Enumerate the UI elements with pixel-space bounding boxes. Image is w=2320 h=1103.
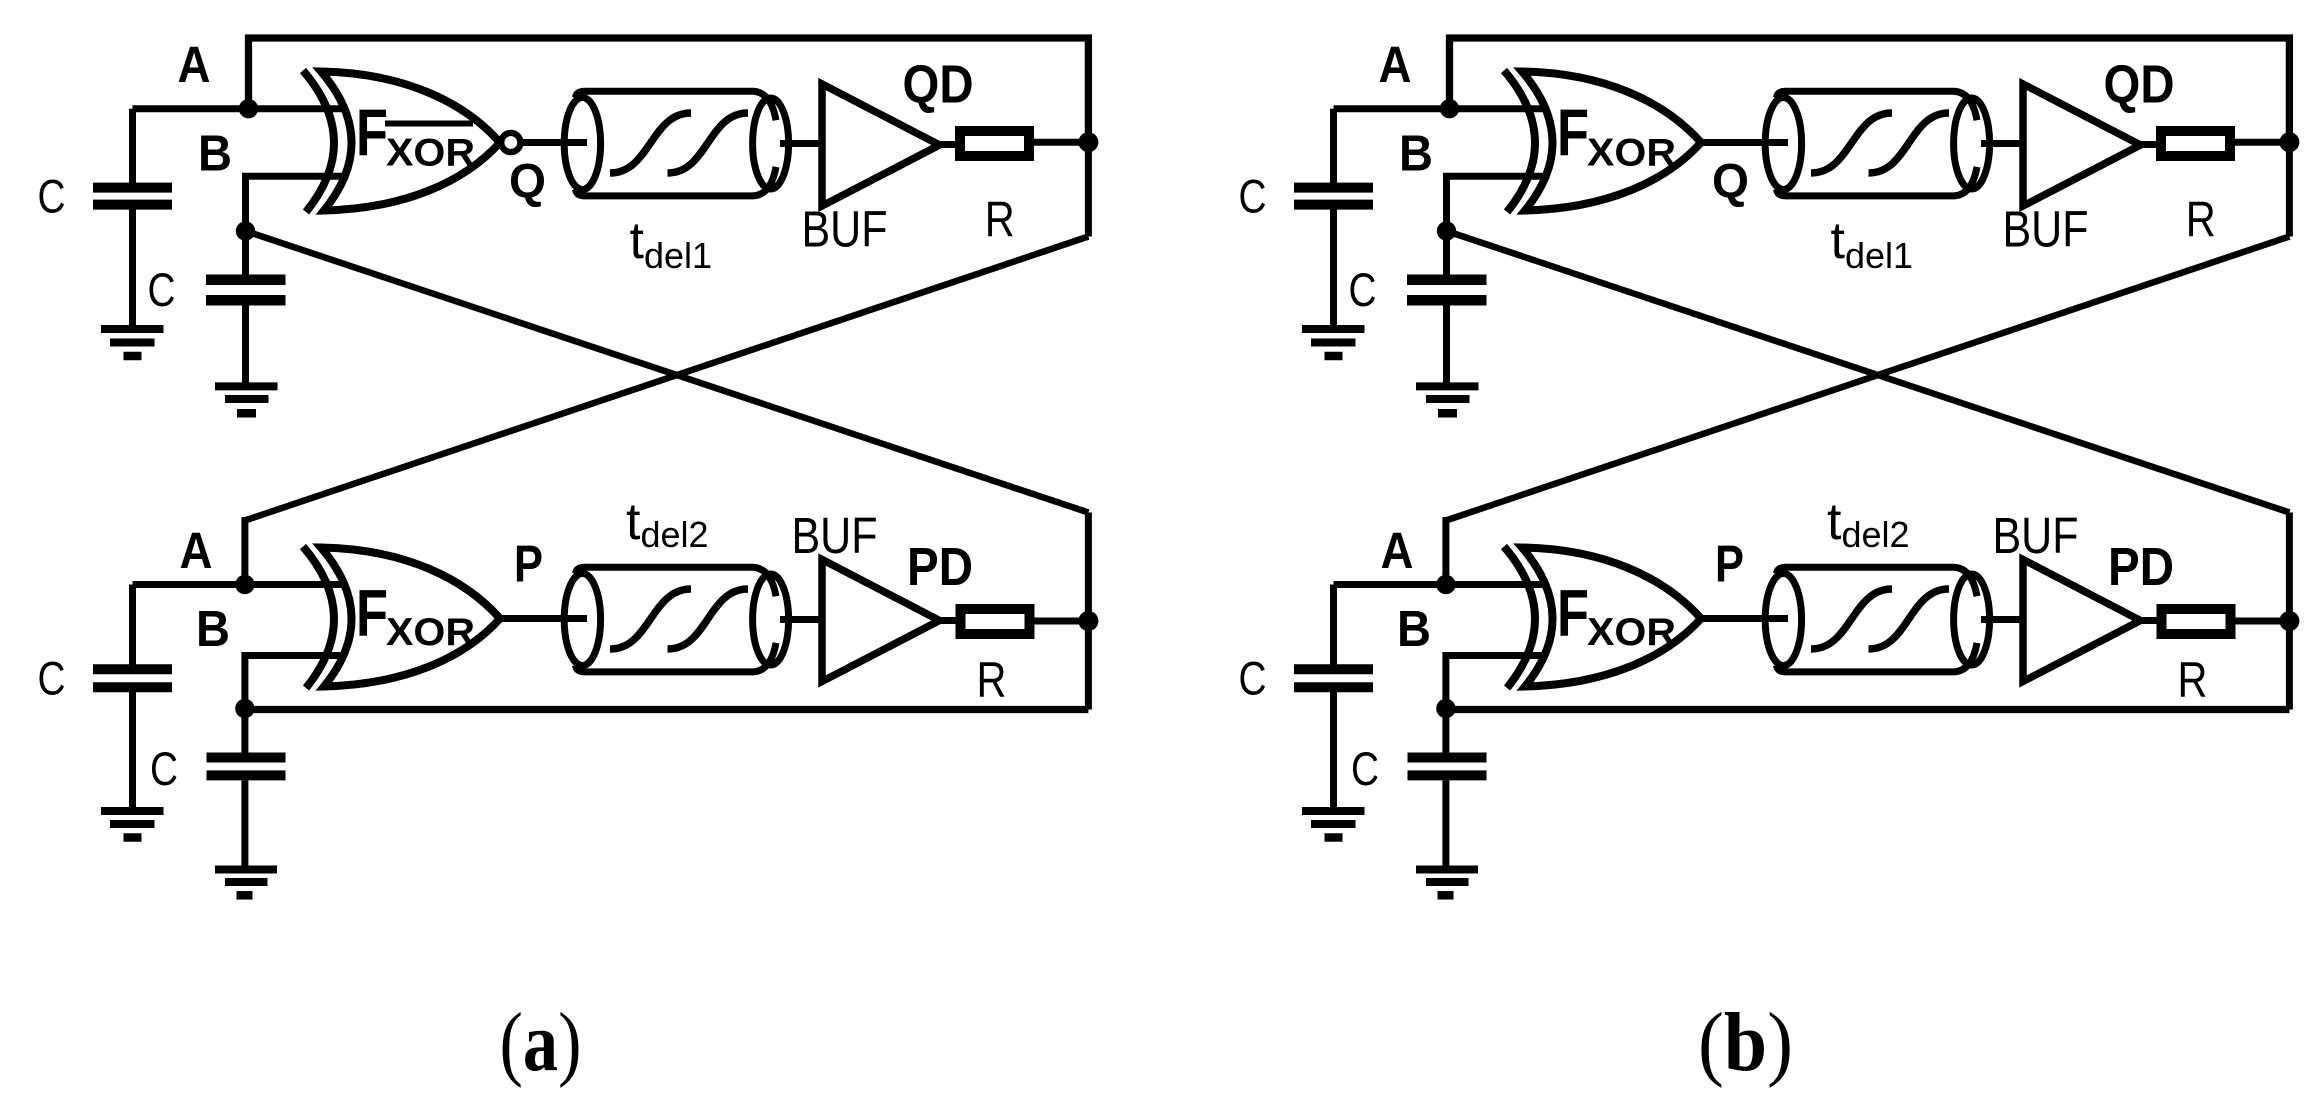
delay line tdel2 sigmoid curve 1 (b) <box>1811 589 1892 649</box>
ground below C2 (a) <box>215 386 278 413</box>
wire input A bottom (a) <box>133 581 366 588</box>
ground below C4 (a) <box>215 870 277 896</box>
wire resistor to node QD (b) <box>2235 139 2289 146</box>
svg-text:XOR: XOR <box>386 611 475 654</box>
svg-text:C: C <box>1349 263 1377 316</box>
buffer BUF triangle (bottom, a) <box>822 560 940 682</box>
delay line tdel1 body (a) <box>576 91 777 196</box>
svg-text:BUF: BUF <box>1993 507 2079 564</box>
xor gate input side double-arc U2-a (bottom) <box>303 547 334 689</box>
capacitor C3 (a) <box>93 669 172 687</box>
wire tdel2 output stub (a) <box>780 616 823 623</box>
node QD (b) <box>2279 132 2299 152</box>
xor gate input side double-arc U1-b (top) <box>1504 71 1535 213</box>
delay line tdel2 left end ellipse (b) <box>1765 574 1801 666</box>
svg-text:QD: QD <box>2104 55 2175 115</box>
svg-text:B: B <box>198 125 232 182</box>
wire P output (a) <box>500 615 587 622</box>
wire C3 to ground (a) <box>129 692 136 808</box>
node PD (a) <box>1078 611 1098 631</box>
node B bottom (b) <box>1436 699 1455 718</box>
wire tdel1 output stub (b) <box>1981 140 2024 147</box>
wire input A top (a) <box>133 105 366 112</box>
svg-text:B: B <box>1399 125 1433 182</box>
svg-text:F: F <box>356 95 388 169</box>
node A top (b) <box>1440 99 1459 118</box>
ground below C1 (a) <box>101 329 164 356</box>
wire BUF to resistor (top, b) <box>2141 141 2163 148</box>
xor gate body U1-a (top) <box>321 72 500 211</box>
capacitor C3 (b) <box>1294 669 1373 687</box>
svg-text:A: A <box>1381 522 1414 579</box>
delay line tdel2 right end ellipse (a) <box>753 574 789 665</box>
buffer BUF triangle (top, a) <box>822 84 940 206</box>
svg-text:B: B <box>1397 600 1431 657</box>
wire BUF to resistor (bottom, b) <box>2141 617 2163 624</box>
xor gate body U2-a (bottom) <box>321 548 500 687</box>
inverter bubble U1-a (top) <box>501 133 520 152</box>
wire QD node down (b) <box>2286 142 2293 236</box>
svg-text:R: R <box>977 652 1007 708</box>
node B bottom (a) <box>235 699 254 718</box>
svg-text:QD: QD <box>903 55 974 115</box>
wire C2 to ground (b) <box>1443 305 1450 384</box>
wire cross-couple top B to PD (a) <box>246 231 1089 513</box>
delay line tdel1 left end ellipse (b) <box>1765 98 1801 190</box>
resistor R (bottom, b) <box>2162 609 2231 634</box>
delay line tdel2 sigmoid curve 1 (a) <box>610 589 691 649</box>
wire A to capacitor C3 (a) <box>129 585 136 667</box>
node QD (a) <box>1078 132 1098 152</box>
delay line tdel2 body (b) <box>1777 567 1978 672</box>
wire B to capacitor C2 (b) <box>1443 231 1450 276</box>
svg-text:B: B <box>196 600 230 657</box>
capacitor C1 (b) <box>1294 188 1373 205</box>
xor gate input side double-arc U1-a (top) <box>303 71 334 213</box>
wire B to capacitor C4 (a) <box>241 709 248 755</box>
svg-text:C: C <box>38 170 66 223</box>
wire resistor to node PD (b) <box>2236 618 2290 625</box>
wire QD node down (a) <box>1085 142 1092 236</box>
svg-text:R: R <box>2186 192 2216 248</box>
wire bottom feedback to node B (b) <box>1446 706 2289 713</box>
wire input A top (b) <box>1334 105 1567 112</box>
wire A to capacitor C1 (a) <box>129 109 136 184</box>
delay line tdel2 right end ellipse (b) <box>1954 574 1990 665</box>
svg-text:R: R <box>2178 652 2208 708</box>
node A bottom (a) <box>235 575 254 594</box>
buffer BUF triangle (top, b) <box>2023 84 2141 206</box>
capacitor C2 (a) <box>206 280 286 301</box>
wire C1 to ground (b) <box>1330 209 1337 327</box>
buffer BUF triangle (bottom, b) <box>2023 560 2141 682</box>
delay line tdel1 right end ellipse (a) <box>753 98 789 189</box>
svg-text:P: P <box>1715 536 1744 594</box>
svg-text:PD: PD <box>907 537 973 597</box>
xor gate input side double-arc U2-b (bottom) <box>1504 547 1535 689</box>
wire input B bottom (b) <box>1446 656 1566 709</box>
capacitor C4 (a) <box>207 758 286 776</box>
xor gate body U1-b (top) <box>1522 72 1701 211</box>
ground below C2 (b) <box>1416 386 1479 413</box>
svg-text:F: F <box>1557 576 1589 650</box>
delay line tdel1 body (b) <box>1777 91 1978 196</box>
wire bottom A riser (a) <box>241 517 248 585</box>
svg-text:BUF: BUF <box>792 507 878 564</box>
svg-text:C: C <box>148 263 176 316</box>
delay line tdel1 left end ellipse (a) <box>564 98 600 190</box>
wire B to capacitor C2 (a) <box>242 231 249 276</box>
delay line tdel2 left end ellipse (a) <box>564 574 600 666</box>
wire cross-couple top B to PD (b) <box>1447 231 2290 513</box>
delay line tdel2 body (a) <box>576 567 777 672</box>
delay line tdel1 sigmoid curve 2 (a) <box>668 113 749 173</box>
delay line tdel1 right end ellipse (b) <box>1954 98 1990 189</box>
wire C4 to ground (a) <box>241 780 248 866</box>
wire bottom A riser (b) <box>1442 517 1449 585</box>
wire PD node up (b) <box>2286 513 2293 622</box>
svg-text:C: C <box>1239 652 1267 705</box>
svg-text:XOR: XOR <box>1587 611 1676 654</box>
svg-text:A: A <box>178 36 211 93</box>
svg-text:P: P <box>514 536 543 594</box>
wire tdel1 output stub (a) <box>780 140 823 147</box>
ground below C3 (a) <box>101 811 164 838</box>
wire Q output (a) <box>522 139 588 146</box>
wire P output (b) <box>1701 615 1788 622</box>
capacitor C2 (b) <box>1407 280 1487 301</box>
svg-text:F: F <box>1557 95 1589 169</box>
gate label XNOR overline (a) <box>385 121 473 127</box>
wire Q output (b) <box>1701 139 1788 146</box>
delay line tdel2 sigmoid curve 2 (a) <box>668 589 749 649</box>
svg-text:XOR: XOR <box>1587 132 1676 175</box>
wire C1 to ground (a) <box>129 209 136 327</box>
wire top feedback loop (b) <box>1450 38 2290 142</box>
node PD (b) <box>2279 611 2299 631</box>
svg-text:(a): (a) <box>500 996 582 1089</box>
wire A to capacitor C1 (b) <box>1330 109 1337 184</box>
capacitor C4 (b) <box>1408 758 1487 776</box>
delay line tdel2 sigmoid curve 2 (b) <box>1869 589 1950 649</box>
wire bottom feedback to node B (a) <box>245 706 1089 713</box>
wire C4 to ground (b) <box>1442 780 1449 866</box>
svg-text:XOR: XOR <box>386 132 475 175</box>
node A top (a) <box>239 99 258 118</box>
wire A to capacitor C3 (b) <box>1330 585 1337 667</box>
svg-text:PD: PD <box>2108 537 2174 597</box>
wire input B top (b) <box>1447 176 1567 231</box>
wire PD node down (a) <box>1085 621 1092 710</box>
svg-text:C: C <box>1351 742 1379 795</box>
delay line tdel1 sigmoid curve 1 (b) <box>1811 113 1892 173</box>
svg-text:BUF: BUF <box>802 201 888 258</box>
xor gate body U2-b (bottom) <box>1522 548 1701 687</box>
ground below C1 (b) <box>1302 329 1365 356</box>
node B top (b) <box>1437 221 1456 240</box>
ground below C4 (b) <box>1416 870 1478 896</box>
svg-text:R: R <box>985 192 1015 248</box>
resistor R (bottom, a) <box>961 609 1030 634</box>
svg-text:A: A <box>180 522 213 579</box>
wire tdel2 output stub (b) <box>1981 616 2024 623</box>
wire BUF to resistor (top, a) <box>940 141 962 148</box>
wire resistor to node QD (a) <box>1034 139 1088 146</box>
svg-text:(b): (b) <box>1698 996 1793 1089</box>
svg-text:Q: Q <box>1712 156 1749 209</box>
svg-text:F: F <box>356 576 388 650</box>
wire cross-couple QD to bottom A (a) <box>245 237 1089 521</box>
svg-text:C: C <box>38 652 66 705</box>
node A bottom (b) <box>1436 575 1455 594</box>
wire cross-couple QD to bottom A (b) <box>1446 237 2289 521</box>
svg-text:C: C <box>150 742 178 795</box>
wire PD node down (b) <box>2286 621 2293 710</box>
delay line tdel1 sigmoid curve 2 (b) <box>1869 113 1950 173</box>
resistor R (top, b) <box>2161 131 2230 156</box>
wire top feedback loop (a) <box>249 38 1089 142</box>
wire C2 to ground (a) <box>242 305 249 384</box>
svg-text:C: C <box>1239 170 1267 223</box>
wire input B top (a) <box>246 176 366 231</box>
capacitor C1 (a) <box>93 188 172 205</box>
ground below C3 (b) <box>1302 811 1365 838</box>
resistor R (top, a) <box>960 131 1029 156</box>
wire C3 to ground (b) <box>1330 692 1337 808</box>
wire resistor to node PD (a) <box>1035 618 1089 625</box>
svg-text:Q: Q <box>509 156 546 209</box>
node B top (a) <box>236 221 255 240</box>
svg-text:BUF: BUF <box>2003 201 2089 258</box>
svg-text:A: A <box>1379 36 1412 93</box>
wire BUF to resistor (bottom, a) <box>940 617 962 624</box>
wire PD node up (a) <box>1085 513 1092 622</box>
wire input B bottom (a) <box>245 656 365 709</box>
delay line tdel1 sigmoid curve 1 (a) <box>610 113 691 173</box>
wire input A bottom (b) <box>1334 581 1567 588</box>
wire B to capacitor C4 (b) <box>1442 709 1449 755</box>
